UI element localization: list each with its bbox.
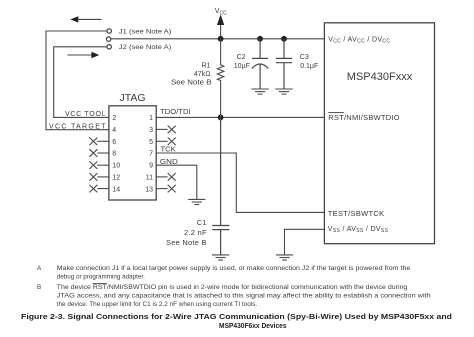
junction dot at C3 [281, 36, 287, 42]
svg-text:TDO/TDI: TDO/TDI [160, 109, 191, 116]
svg-text:C1: C1 [197, 218, 207, 227]
svg-text:10: 10 [112, 163, 120, 170]
svg-text:Make connection J1 if a local: Make connection J1 if a local target pow… [57, 265, 411, 272]
svg-text:47kΩ: 47kΩ [194, 71, 211, 78]
no-connect X pin 10 [89, 161, 109, 169]
no-connect X pin 3 [156, 126, 176, 134]
svg-text:JTAG: JTAG [119, 92, 145, 104]
no-connect X pin 11 [156, 173, 176, 181]
svg-text:14: 14 [112, 186, 120, 193]
Vcc symbol [215, 8, 227, 25]
value label C2 [234, 54, 250, 70]
ground under C3 [275, 89, 292, 94]
pin numbers JTAG right column [145, 115, 153, 193]
wire Vcc stub [220, 24, 222, 39]
svg-text:The device RST/NMI/SBWTDIO pin: The device RST/NMI/SBWTDIO pin is used i… [57, 284, 408, 291]
capacitor C1 (2.2nF) [212, 117, 229, 255]
connector JTAG box [109, 92, 156, 200]
no-connect X pin 13 [156, 185, 176, 193]
svg-text:VCC TOOL: VCC TOOL [65, 111, 106, 118]
svg-text:See Note B: See Note B [166, 238, 207, 247]
jumper J2 terminal [107, 45, 111, 49]
capacitor C3 (0.1uF) [276, 39, 292, 89]
svg-text:the device. The upper limit fo: the device. The upper limit for C1 is 2.… [57, 301, 258, 308]
ground under C1 [212, 255, 229, 260]
svg-text:0.1µF: 0.1µF [300, 63, 318, 70]
svg-text:4: 4 [112, 127, 116, 134]
svg-text:C2: C2 [237, 54, 246, 61]
ground under C2 [252, 89, 269, 94]
svg-text:MSP430Fxxx: MSP430Fxxx [347, 71, 413, 83]
svg-text:TCK: TCK [161, 146, 177, 153]
pin label RST/NMI/SBWTDIO with overline on RST [328, 113, 400, 122]
svg-text:TEST/SBWTCK: TEST/SBWTCK [328, 209, 385, 218]
wire TCK/TEST net [156, 153, 324, 212]
svg-text:9: 9 [149, 163, 153, 170]
svg-text:C3: C3 [300, 54, 309, 61]
caption figure 2-3 [21, 312, 452, 330]
IC MSP430Fxxx box [324, 23, 434, 244]
wire VCC TARGET from J1 to pin 4 [46, 31, 109, 130]
svg-text:VCC TARGET: VCC TARGET [49, 124, 106, 131]
ground at JTAG pin 9 [188, 199, 205, 204]
junction dot at R1/TDO [218, 115, 224, 121]
svg-text:J2 (see Note A): J2 (see Note A) [119, 44, 172, 51]
note B text [37, 283, 431, 307]
no-connect X pin 8 [89, 149, 109, 157]
svg-text:2: 2 [112, 115, 116, 122]
no-connect X pin 12 [89, 173, 109, 181]
svg-text:11: 11 [146, 174, 153, 181]
arrow left (to tool) [70, 16, 101, 22]
svg-text:3: 3 [149, 127, 153, 134]
wire VCC TOOL from J2 to pin 2 [54, 47, 109, 118]
jumper J1 terminal [107, 29, 111, 33]
svg-text:R1: R1 [202, 63, 211, 70]
svg-text:12: 12 [112, 174, 120, 181]
svg-text:See Note B: See Note B [171, 80, 212, 87]
svg-text:8: 8 [112, 151, 116, 158]
svg-text:2.2 nF: 2.2 nF [184, 228, 207, 237]
arrow right (to target) [67, 52, 99, 58]
svg-text:10µF: 10µF [234, 63, 250, 70]
junction dot at Vcc/R1 [218, 36, 224, 42]
value label C3 [300, 54, 318, 70]
svg-text:5: 5 [149, 139, 153, 146]
svg-text:debug or programming adapter.: debug or programming adapter. [57, 273, 145, 280]
svg-text:MSP430F6xx Devices: MSP430F6xx Devices [219, 321, 287, 330]
svg-text:7: 7 [149, 151, 153, 158]
capacitor C2 (polarized 10uF) [252, 39, 268, 89]
svg-text:JTAG access, and any capacitan: JTAG access, and any capacitance that is… [57, 292, 432, 299]
pin numbers JTAG left column [112, 115, 120, 193]
note A text [37, 265, 411, 280]
no-connect X pin 6 [89, 138, 109, 146]
svg-text:13: 13 [145, 186, 153, 193]
svg-text:RST/NMI/SBWTDIO: RST/NMI/SBWTDIO [328, 113, 400, 122]
node Vcc middle terminal [106, 37, 110, 41]
ground at Vss [276, 255, 293, 260]
svg-text:GND: GND [160, 159, 178, 166]
wire TDO/TDI net [156, 116, 324, 118]
svg-text:J1 (see Note A): J1 (see Note A) [119, 28, 172, 35]
junction dot at C2 [257, 36, 263, 42]
no-connect X pin 14 [89, 185, 109, 193]
wire Vcc rail [111, 38, 325, 40]
svg-text:6: 6 [112, 139, 116, 146]
wire GND from pin 9 [156, 165, 197, 199]
wire Vss to ground [285, 229, 325, 255]
no-connect X pin 5 [156, 138, 176, 146]
value label C1 [166, 218, 207, 247]
svg-text:1: 1 [149, 115, 153, 122]
svg-text:B: B [37, 284, 41, 291]
resistor R1 [171, 39, 224, 118]
